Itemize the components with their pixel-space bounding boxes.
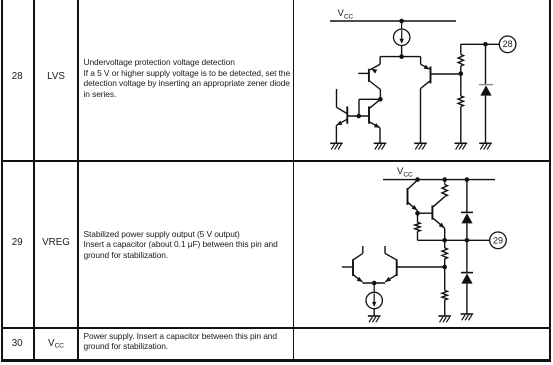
svg-text:VCC: VCC <box>338 8 354 21</box>
svg-text:VCC: VCC <box>397 166 413 179</box>
svg-text:28: 28 <box>503 39 513 49</box>
svg-text:29: 29 <box>493 236 503 246</box>
